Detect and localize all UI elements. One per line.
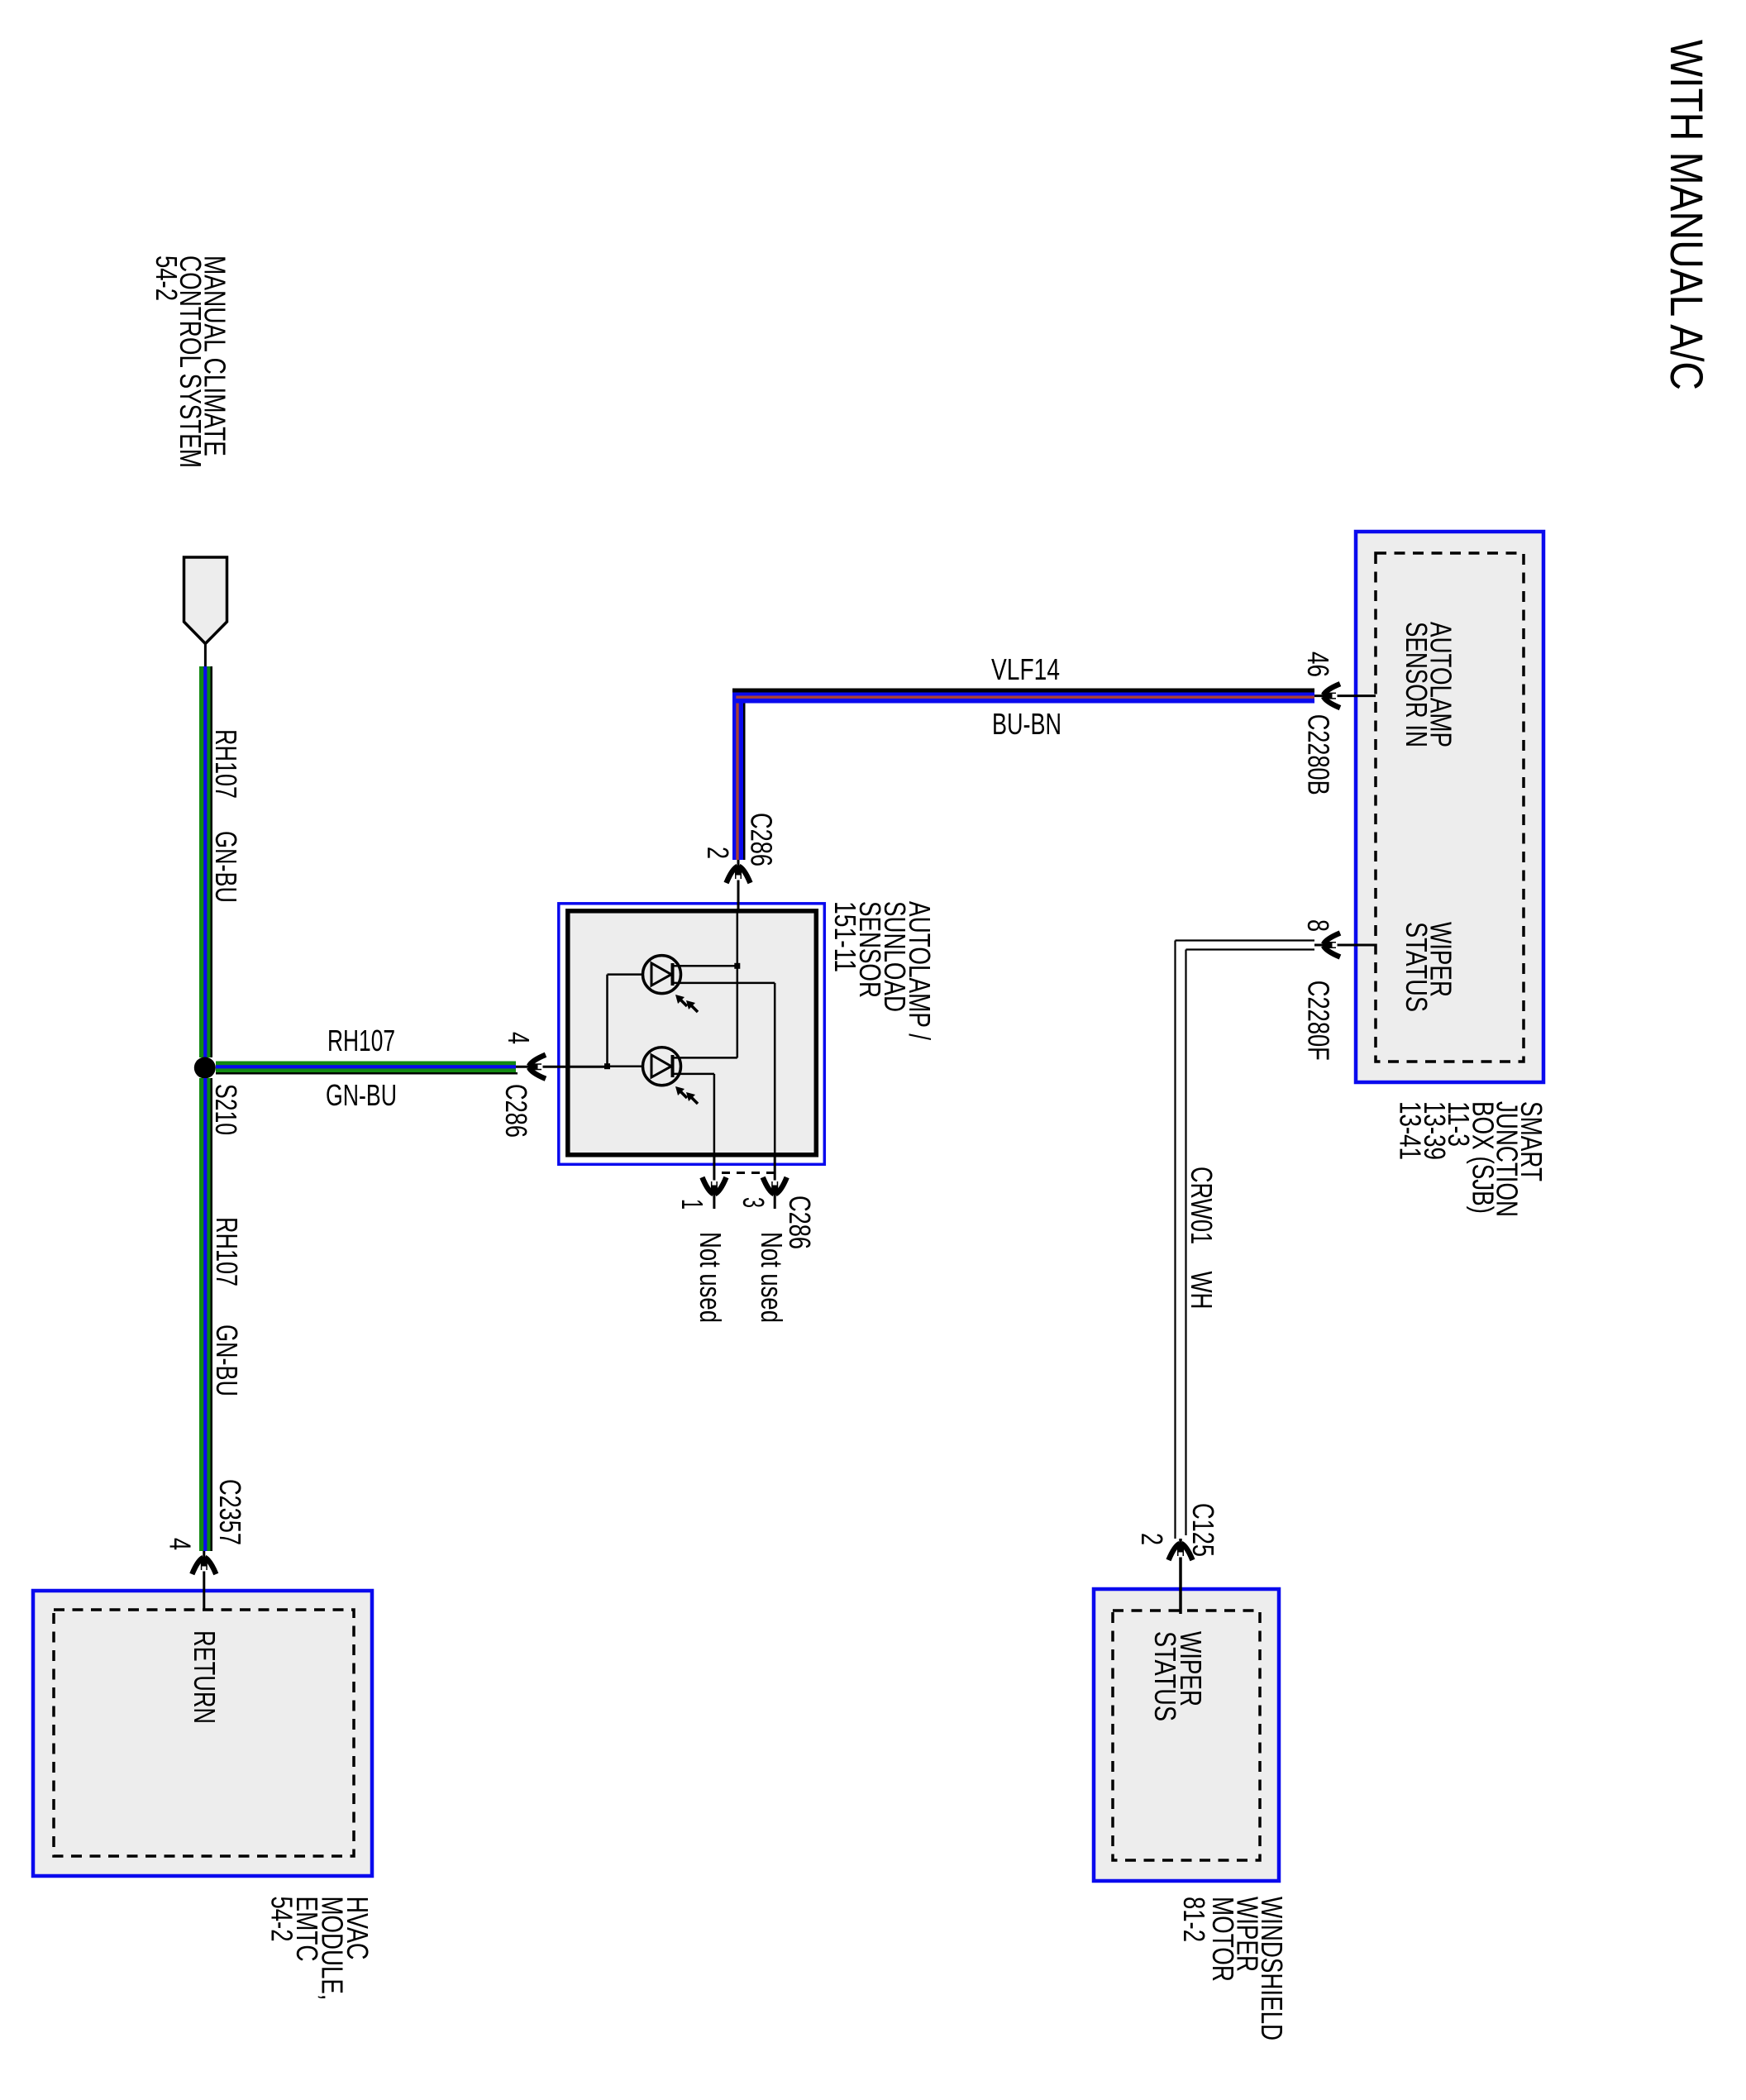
junction on pin 2 net	[734, 963, 740, 969]
svg-text:VLF14: VLF14	[991, 652, 1060, 686]
photodiode D2 bottom	[643, 1048, 681, 1086]
pin line into SJB pin 46	[1314, 694, 1376, 697]
svg-text:46: 46	[1301, 651, 1335, 677]
svg-text:C125: C125	[1186, 1503, 1220, 1557]
svg-text:4: 4	[164, 1538, 198, 1550]
wiper motor dashed internal border	[1113, 1611, 1260, 1860]
sensor internal wiring	[737, 909, 739, 1057]
wire tail from off-page connector	[204, 644, 207, 668]
HVAC module box	[33, 1591, 372, 1876]
SJB dashed internal border	[1376, 553, 1524, 1062]
windshield wiper motor box	[1094, 1589, 1279, 1881]
sensor pin 1 line	[713, 1155, 715, 1209]
svg-text:C286: C286	[499, 1084, 533, 1138]
pin line into wiper motor pin 2	[1179, 1539, 1182, 1614]
svg-text:1: 1	[675, 1199, 709, 1210]
connector arrow C2357 pin 4	[192, 1558, 216, 1574]
svg-text:3: 3	[737, 1197, 770, 1208]
connector arrow pin 3	[763, 1177, 787, 1194]
wire RH107 GN-BU horizontal segment	[216, 1062, 516, 1073]
off-page connector to manual climate control system	[184, 557, 227, 644]
svg-text:STATUS: STATUS	[1400, 922, 1434, 1012]
svg-text:CRW01: CRW01	[1185, 1167, 1219, 1244]
connector arrow pin 1	[702, 1177, 726, 1194]
svg-text:RH107: RH107	[327, 1024, 395, 1057]
svg-text:RETURN: RETURN	[188, 1630, 222, 1724]
svg-text:STATUS: STATUS	[1148, 1631, 1182, 1721]
svg-text:GN-BU: GN-BU	[326, 1078, 397, 1112]
svg-text:Not used: Not used	[755, 1232, 789, 1323]
wire tail into HVAC module	[203, 1551, 205, 1611]
svg-text:RH107: RH107	[210, 1217, 244, 1286]
svg-text:GN-BU: GN-BU	[209, 831, 243, 903]
svg-text:GN-BU: GN-BU	[210, 1324, 244, 1396]
connector arrow C286 pin 2	[727, 866, 751, 883]
autolamp/sunload sensor box	[559, 904, 825, 1165]
svg-text:54-2: 54-2	[150, 255, 184, 301]
HVAC module dashed internal border	[54, 1610, 354, 1856]
svg-text:8: 8	[1301, 919, 1335, 932]
wire VLF14 BU-BN horizontal segment	[732, 689, 1314, 693]
svg-text:81-2: 81-2	[1177, 1897, 1211, 1942]
wire VLF14 BU-BN vertical segment	[732, 692, 743, 860]
wire RH107 GN-BU vertical upper segment	[199, 666, 211, 1057]
photodiode D1 top	[643, 956, 681, 994]
svg-text:2: 2	[1135, 1533, 1169, 1545]
svg-text:C286: C286	[745, 813, 779, 866]
connector arrow C125 pin 2	[1169, 1544, 1193, 1560]
pin line into sensor pin 4	[516, 1066, 608, 1068]
svg-text:13-41: 13-41	[1394, 1101, 1428, 1160]
wire RH107 GN-BU vertical lower segment	[199, 1078, 211, 1551]
splice S210	[194, 1057, 216, 1079]
svg-text:WH: WH	[1185, 1272, 1219, 1310]
svg-text:C2280F: C2280F	[1302, 981, 1336, 1061]
connector arrow C2280F pin 8	[1324, 933, 1340, 957]
svg-text:4: 4	[502, 1032, 536, 1044]
svg-text:C2357: C2357	[213, 1479, 247, 1545]
sensor pin 3 line	[774, 1155, 776, 1209]
connector arrow C286 pin 4	[529, 1055, 546, 1079]
pin line into sensor pin 2	[737, 860, 740, 909]
light arrows D1	[680, 999, 698, 1012]
smart junction box	[1356, 532, 1543, 1082]
wire CRW01 WH vertical segment	[1174, 941, 1176, 1539]
svg-text:54-2: 54-2	[265, 1897, 299, 1942]
svg-text:RH107: RH107	[209, 729, 243, 799]
light arrows D2	[680, 1091, 698, 1104]
junction on pin 4 net	[604, 1063, 610, 1069]
svg-text:BU-BN: BU-BN	[992, 707, 1061, 741]
pin line into SJB pin 8	[1314, 944, 1376, 947]
svg-text:S210: S210	[209, 1084, 243, 1135]
svg-text:2: 2	[701, 847, 735, 859]
svg-text:C2280B: C2280B	[1302, 714, 1336, 795]
wire CRW01 WH horizontal segment	[1176, 939, 1315, 941]
dashed connector bar C286 pins 1-3	[722, 1172, 774, 1174]
svg-text:151-11: 151-11	[828, 901, 862, 972]
svg-text:Not used: Not used	[694, 1232, 727, 1323]
connector arrow C2280B pin 46	[1324, 684, 1340, 708]
svg-text:WITH MANUAL A/C: WITH MANUAL A/C	[1661, 40, 1713, 390]
svg-text:SENSOR IN: SENSOR IN	[1400, 622, 1434, 747]
